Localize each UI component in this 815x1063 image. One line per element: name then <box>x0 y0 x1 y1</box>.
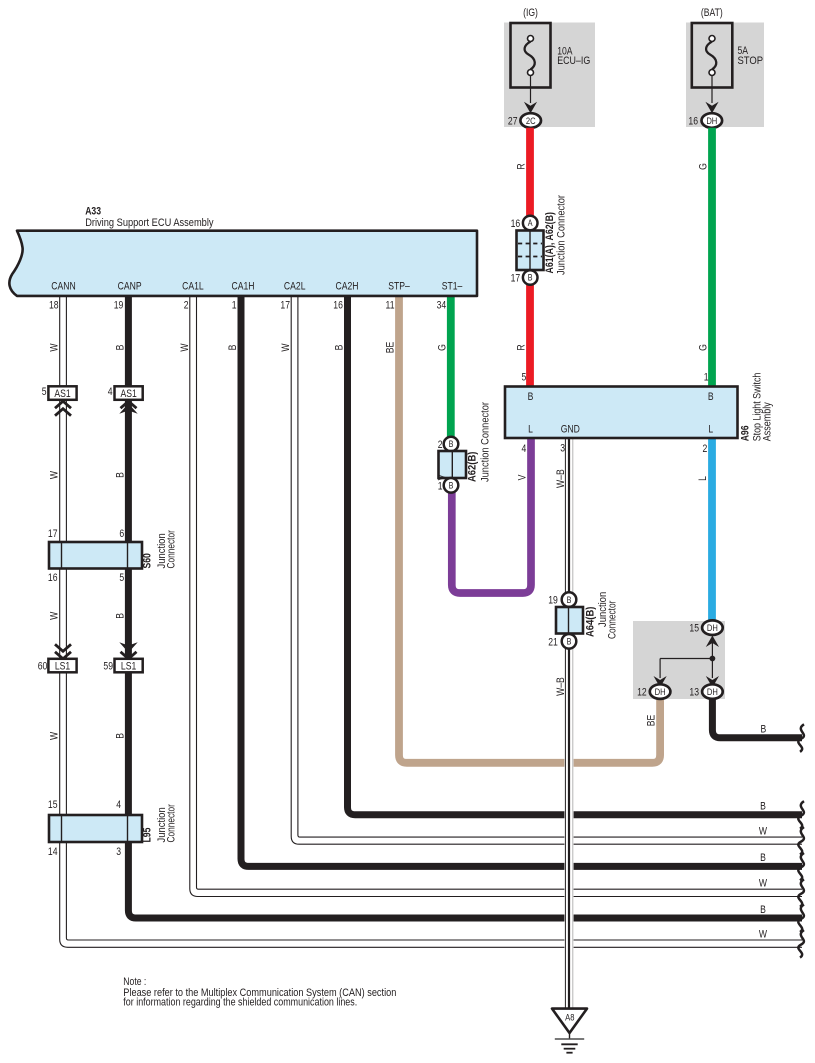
connector AS1 pin4 (CANP) <box>108 386 143 414</box>
connector LS1 pin59 (CANP) <box>103 642 142 672</box>
junction connector A61(A), A62(B) <box>511 194 568 285</box>
svg-text:B: B <box>760 801 766 813</box>
svg-text:W: W <box>49 470 61 479</box>
svg-text:B: B <box>760 904 766 916</box>
svg-text:Assembly: Assembly <box>761 402 773 441</box>
svg-text:(IG): (IG) <box>523 7 538 19</box>
svg-text:11: 11 <box>386 300 395 312</box>
wire B CANP <box>128 295 802 918</box>
svg-text:DH: DH <box>707 622 718 633</box>
svg-text:B: B <box>115 472 127 478</box>
junction connector A62(B) <box>438 401 492 492</box>
ground A8 <box>552 1009 587 1053</box>
terminal DH pin 12 <box>650 684 671 699</box>
wire break squiggle W CANN <box>798 930 804 958</box>
svg-text:W: W <box>179 343 191 352</box>
svg-text:1: 1 <box>704 372 709 384</box>
svg-text:W: W <box>280 343 292 352</box>
junction connector S60 <box>48 528 178 584</box>
wire R A61 to A96 pin5 <box>526 284 534 387</box>
svg-text:W: W <box>49 343 61 352</box>
svg-text:for information regarding the: for information regarding the shielded c… <box>123 996 357 1008</box>
svg-text:5: 5 <box>521 372 526 384</box>
svg-text:L95: L95 <box>142 827 154 842</box>
svg-text:3: 3 <box>560 443 565 455</box>
terminal DH pin 16 (fuse) <box>688 113 722 128</box>
relay block background DH <box>633 621 725 699</box>
svg-text:AS1: AS1 <box>54 388 70 400</box>
svg-text:16: 16 <box>48 572 58 584</box>
fuse 10A ECU-IG <box>511 7 591 113</box>
svg-text:W–B: W–B <box>555 677 567 696</box>
junction connector A64(B) <box>548 592 619 649</box>
note text <box>123 976 396 1008</box>
wire break squiggle B CA1H <box>798 853 804 881</box>
wire BE STP- to DH12 <box>399 295 660 763</box>
wire B CA1H <box>241 295 802 866</box>
svg-text:Connector: Connector <box>607 600 619 639</box>
wire B CA2H <box>348 295 803 815</box>
svg-text:2: 2 <box>702 443 707 455</box>
svg-text:15: 15 <box>689 623 699 635</box>
svg-text:DH: DH <box>706 115 717 126</box>
svg-text:L: L <box>697 476 709 481</box>
svg-text:L: L <box>528 424 533 436</box>
svg-text:16: 16 <box>333 300 343 312</box>
svg-text:Junction Connector: Junction Connector <box>480 401 492 482</box>
wire W CA1L shielded pair <box>190 295 802 897</box>
wire break squiggle W CA1L <box>798 879 804 907</box>
svg-text:18: 18 <box>49 300 59 312</box>
svg-text:6: 6 <box>119 528 124 540</box>
svg-text:Driving Support ECU Assembly: Driving Support ECU Assembly <box>85 217 213 229</box>
svg-text:4: 4 <box>108 386 113 398</box>
svg-text:B: B <box>528 391 534 403</box>
svg-text:Connector: Connector <box>166 529 178 568</box>
svg-text:5: 5 <box>119 572 124 584</box>
connector LS1 pin60 (CANN) <box>38 644 77 672</box>
svg-text:BE: BE <box>646 714 658 726</box>
svg-text:2: 2 <box>438 439 443 451</box>
svg-text:34: 34 <box>437 300 447 312</box>
switch A96 Stop Light Switch Assembly <box>505 372 774 455</box>
svg-text:BE: BE <box>385 341 397 353</box>
wire G ST1- to A62 <box>447 295 455 437</box>
svg-text:2: 2 <box>184 300 189 312</box>
svg-text:A8: A8 <box>565 1011 574 1022</box>
svg-text:4: 4 <box>521 443 526 455</box>
svg-text:S60: S60 <box>142 553 154 569</box>
svg-text:B: B <box>115 613 127 619</box>
wire W CANN shielded pair <box>60 295 802 947</box>
svg-text:19: 19 <box>114 300 124 312</box>
wire break squiggle B DH13 <box>798 724 804 752</box>
wire V A62 to A96 pin4 <box>452 438 531 593</box>
svg-text:CA2H: CA2H <box>335 281 358 293</box>
svg-text:12: 12 <box>637 687 647 699</box>
wire break squiggle B CA2H <box>798 801 804 829</box>
svg-text:13: 13 <box>689 687 699 699</box>
junction connector L95 <box>48 799 178 858</box>
svg-text:B: B <box>334 345 346 351</box>
svg-text:B: B <box>528 273 533 283</box>
svg-text:GND: GND <box>561 424 580 436</box>
svg-text:W: W <box>49 731 61 740</box>
svg-text:CA1L: CA1L <box>182 281 204 293</box>
wire break squiggle B CANP <box>798 905 804 933</box>
svg-text:1: 1 <box>232 300 237 312</box>
svg-text:4: 4 <box>116 799 121 811</box>
svg-text:ST1–: ST1– <box>442 281 463 293</box>
svg-text:27: 27 <box>508 116 518 128</box>
svg-text:B: B <box>115 733 127 739</box>
terminal 2C pin 27 <box>508 113 541 128</box>
svg-text:21: 21 <box>548 636 558 648</box>
svg-text:W: W <box>49 611 61 620</box>
fuse block background (BAT) <box>686 23 764 128</box>
wire W-B A96 GND to A64 <box>564 438 573 593</box>
wire branch to DH13 <box>711 659 713 679</box>
wire W-B A64 to ground A8 <box>564 649 573 1009</box>
svg-text:19: 19 <box>548 595 558 607</box>
svg-text:17: 17 <box>280 300 290 312</box>
svg-text:B: B <box>761 724 767 736</box>
svg-text:STOP: STOP <box>738 55 764 67</box>
svg-text:A62(B): A62(B) <box>467 452 479 482</box>
svg-text:LS1: LS1 <box>121 660 136 672</box>
svg-text:(BAT): (BAT) <box>701 7 723 19</box>
svg-text:G: G <box>698 163 710 170</box>
svg-text:ECU–IG: ECU–IG <box>557 55 590 67</box>
svg-text:17: 17 <box>511 273 521 285</box>
ECU A33 Driving Support ECU Assembly <box>9 206 477 312</box>
wire G fuse DH to A96 pin1 <box>708 128 716 387</box>
svg-text:B: B <box>227 345 239 351</box>
svg-text:B: B <box>567 637 572 647</box>
svg-text:A64(B): A64(B) <box>585 607 597 637</box>
svg-text:A: A <box>528 218 533 228</box>
svg-text:R: R <box>516 344 528 350</box>
wire L A96 pin2 to DH15 <box>708 438 716 623</box>
svg-text:B: B <box>708 391 714 403</box>
terminal DH pin 15 <box>702 620 723 635</box>
connector AS1 pin5 (CANN) <box>42 386 77 416</box>
terminal DH pin 13 <box>702 684 723 699</box>
svg-text:B: B <box>449 439 454 449</box>
svg-text:W: W <box>759 825 768 837</box>
svg-text:W: W <box>759 928 768 940</box>
svg-text:G: G <box>436 344 448 351</box>
svg-text:B: B <box>449 481 454 491</box>
svg-text:CA1H: CA1H <box>231 281 254 293</box>
svg-text:60: 60 <box>38 660 48 672</box>
svg-text:STP–: STP– <box>388 281 410 293</box>
svg-text:2C: 2C <box>526 115 536 126</box>
svg-text:16: 16 <box>511 218 521 230</box>
svg-text:V: V <box>437 474 449 480</box>
svg-text:CA2L: CA2L <box>284 281 306 293</box>
svg-text:A61(A), A62(B): A61(A), A62(B) <box>544 212 556 273</box>
node junction dot <box>710 656 716 662</box>
fuse block background (IG) <box>504 23 595 128</box>
svg-text:G: G <box>698 344 710 351</box>
wire B DH13 to right edge <box>712 698 802 738</box>
svg-text:DH: DH <box>655 686 666 697</box>
svg-text:LS1: LS1 <box>55 660 70 672</box>
svg-text:B: B <box>760 852 766 864</box>
wire branch to DH12 <box>660 658 712 660</box>
wire W CA2L shielded pair <box>291 295 802 844</box>
svg-text:14: 14 <box>48 846 58 858</box>
svg-text:W: W <box>759 878 768 890</box>
svg-text:5: 5 <box>42 386 47 398</box>
svg-text:3: 3 <box>116 846 121 858</box>
svg-text:1: 1 <box>438 480 443 492</box>
svg-text:59: 59 <box>103 660 113 672</box>
svg-text:16: 16 <box>688 116 698 128</box>
svg-text:AS1: AS1 <box>120 388 136 400</box>
svg-text:V: V <box>517 474 529 480</box>
svg-text:R: R <box>516 163 528 169</box>
svg-text:DH: DH <box>707 686 718 697</box>
fuse 5A STOP <box>692 7 763 113</box>
svg-text:15: 15 <box>48 799 58 811</box>
svg-text:B: B <box>115 345 127 351</box>
svg-text:B: B <box>567 595 572 605</box>
wire R fuse 2C to A61 <box>526 128 534 217</box>
svg-text:17: 17 <box>48 528 58 540</box>
svg-text:CANP: CANP <box>118 281 142 293</box>
relay block terminals DH 15/12/13 <box>637 620 723 699</box>
wire break squiggle W CA2L <box>798 827 804 855</box>
svg-text:CANN: CANN <box>51 281 75 293</box>
svg-text:Junction Connector: Junction Connector <box>556 194 568 275</box>
svg-text:W–B: W–B <box>555 469 567 488</box>
svg-text:L: L <box>708 424 713 436</box>
svg-text:Connector: Connector <box>166 803 178 842</box>
svg-text:A96: A96 <box>740 425 752 441</box>
